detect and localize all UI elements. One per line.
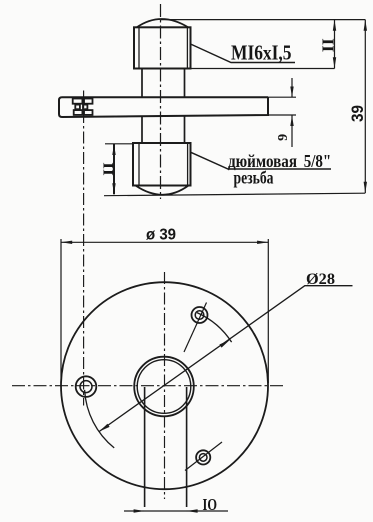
dimension 9 upper stem: [291, 78, 293, 97]
flange plate side view: [59, 97, 268, 117]
svg-text:ø 39: ø 39: [146, 226, 176, 243]
plate slot feature row3 right block: [84, 110, 93, 115]
stud top thread root lines: [139, 27, 187, 68]
dimension line 11 left: [113, 144, 115, 194]
arrow down 11 bottom: [333, 57, 336, 68]
svg-text:II: II: [101, 162, 117, 176]
stud bottom dome: [136, 186, 189, 195]
dimension line 39 right: [364, 20, 366, 193]
svg-text:Ø28: Ø28: [306, 271, 335, 288]
bottom-right hole centerline: [185, 442, 222, 471]
svg-text:9: 9: [276, 134, 291, 141]
arrow lower-left dia28: [99, 424, 110, 432]
flange vertical centerline: [164, 272, 166, 499]
plate slot feature row2 left block: [75, 105, 80, 110]
leader line to 5/8 thread label: [191, 152, 331, 169]
dia 28 dimension line: [99, 286, 353, 432]
leader line to M16x1,5 label: [191, 44, 296, 63]
bolt circle arc lower-left: [85, 390, 115, 448]
bottom extension line of side view: [104, 193, 365, 196]
extension line from top thread bottom: [191, 68, 335, 70]
plate slot feature row3 left block: [74, 110, 83, 115]
lower shaft: [142, 116, 185, 144]
svg-text:резьба: резьба: [234, 168, 274, 188]
svg-text:MI6xI,5: MI6xI,5: [231, 41, 292, 65]
stud bottom thread root lines: [139, 143, 188, 186]
dimension line 10 bottom: [124, 510, 228, 512]
plate right extension lines: [268, 97, 296, 115]
left bolt hole: [76, 376, 97, 397]
svg-text:II: II: [319, 38, 338, 52]
main vertical centerline of side view: [160, 4, 162, 199]
extension line right dia39: [267, 239, 269, 383]
arrow up 9: [290, 116, 293, 127]
hole centerline through plate and flange: [83, 91, 85, 406]
arrow right dia39: [257, 241, 268, 244]
upper shaft: [142, 69, 185, 98]
flange big circle: [61, 282, 268, 489]
arrow upper-right dia28: [219, 340, 230, 348]
plate slot feature row1 right block: [84, 99, 93, 104]
svg-text:39: 39: [349, 105, 367, 122]
flange horizontal centerline: [12, 385, 285, 387]
plate slot feature row2 right block: [83, 105, 87, 110]
extension from bottom thread top: [105, 143, 133, 145]
dimension line 11 top right: [334, 20, 336, 69]
extension line from stud top: [161, 19, 365, 21]
center hole outer circle: [134, 357, 194, 417]
arrow down 9: [290, 87, 293, 98]
svg-text:5/8": 5/8": [304, 151, 332, 171]
arrow left dia39: [61, 241, 72, 244]
arrow down 39: [364, 182, 367, 193]
dimension line dia 39: [61, 241, 268, 243]
svg-text:IO: IO: [203, 495, 218, 514]
plate slot feature row1 left block: [73, 99, 83, 104]
arrow up 39: [364, 20, 367, 31]
bottom-right bolt hole: [196, 450, 210, 464]
arrow right-pointing 10: [134, 509, 145, 512]
arrow left-pointing 10: [187, 509, 198, 512]
arrow up 11 left: [112, 144, 115, 155]
tube shaft lines bottom view: [145, 387, 187, 507]
stud top dome: [137, 19, 189, 28]
center hole inner circle: [137, 360, 191, 414]
top-right hole radial centerline: [184, 303, 207, 353]
top-right bolt hole: [192, 307, 208, 323]
stud top thread M16 outline: [134, 27, 191, 68]
extension line left dia39: [60, 239, 62, 383]
bolt circle arc upper-right: [197, 313, 232, 343]
arrow down 11 left: [112, 183, 115, 194]
dimension 9 lower stem: [291, 116, 293, 148]
stud bottom thread 5/8 outline: [133, 143, 191, 186]
arrow up 11 top: [333, 20, 336, 31]
